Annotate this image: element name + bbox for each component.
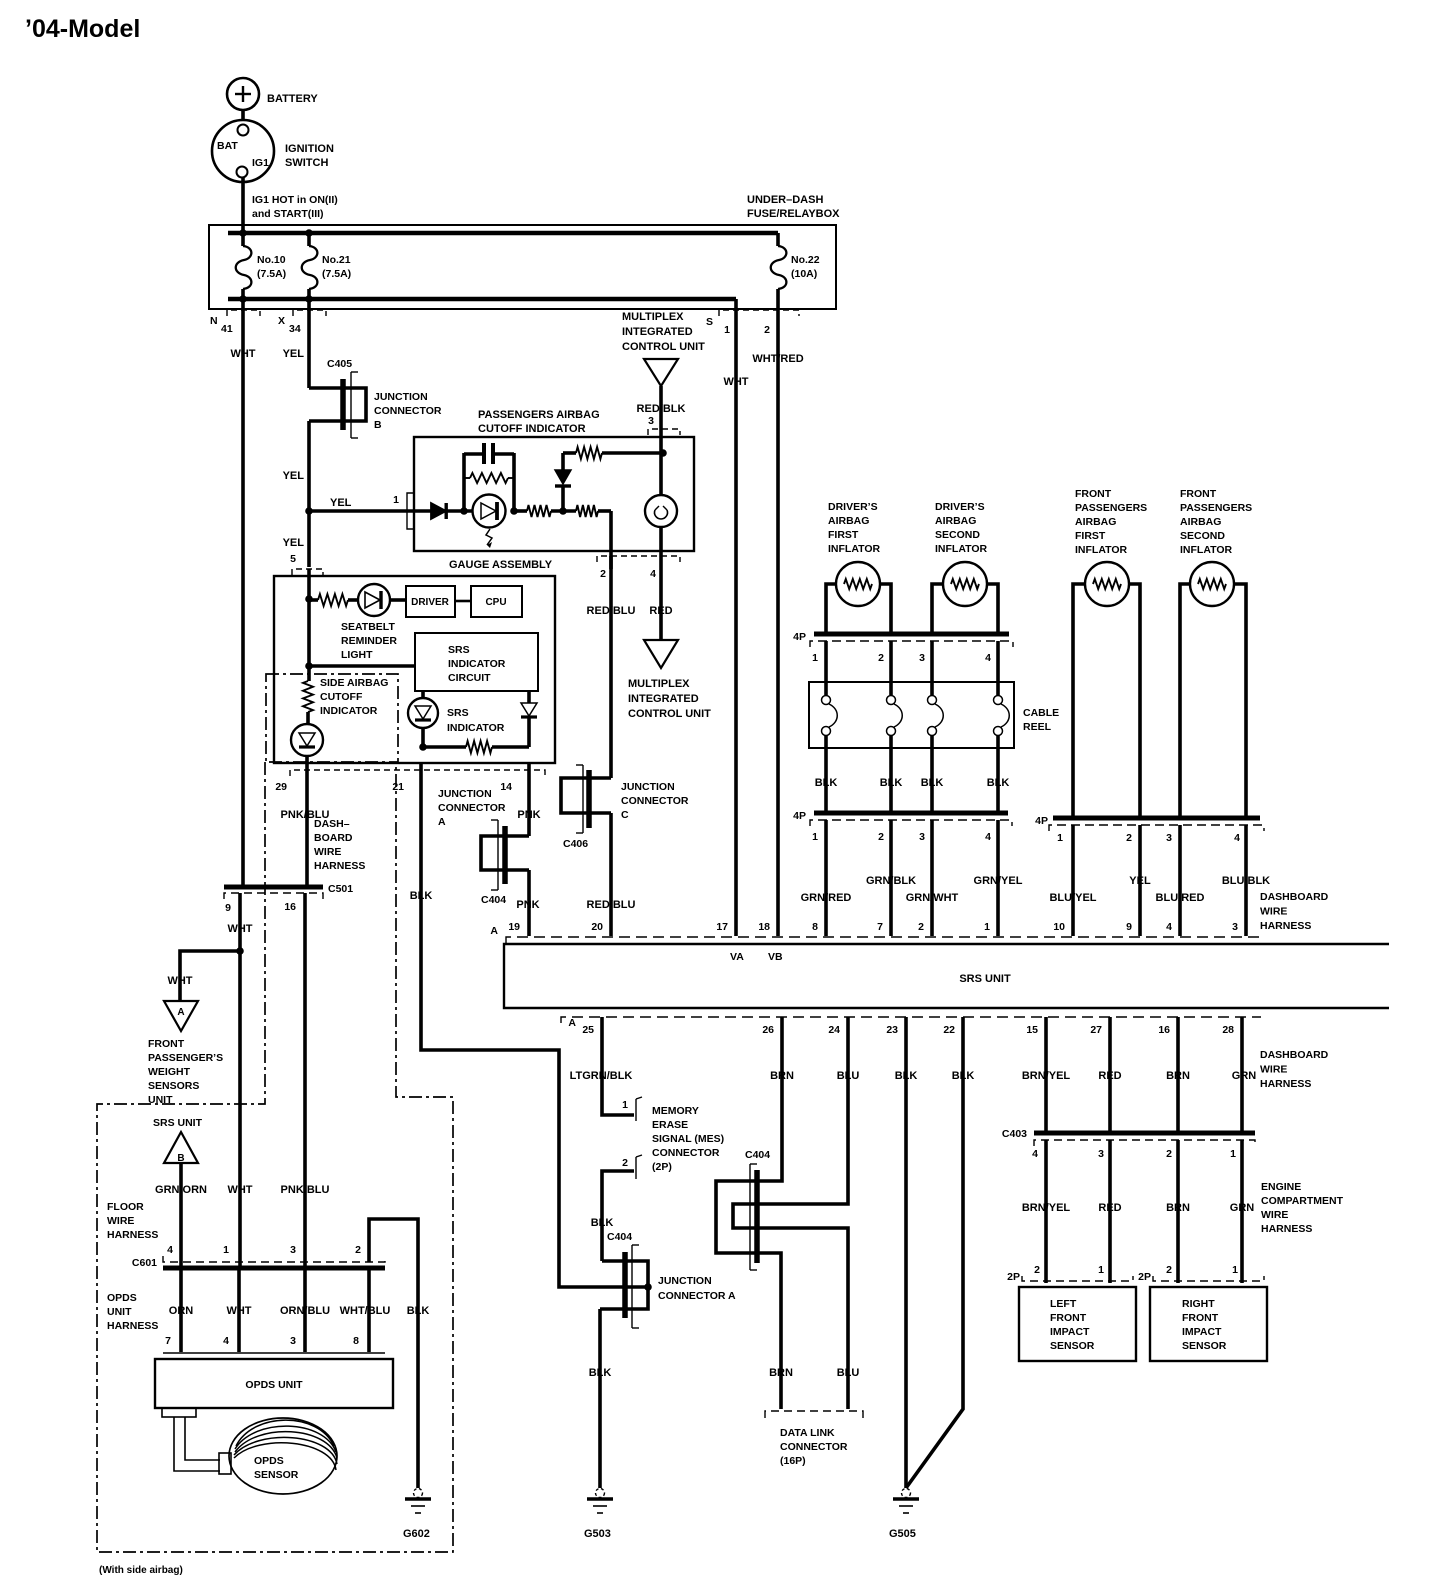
side airbag cutoff indicator: [291, 666, 388, 756]
svg-text:G505: G505: [889, 1528, 916, 1540]
node rail-diode branch: [559, 507, 567, 515]
svg-text:HARNESS: HARNESS: [314, 860, 365, 872]
svg-text:C404: C404: [481, 894, 506, 906]
svg-text:3: 3: [1232, 921, 1238, 933]
wire WHT branch to triangle A: [167, 951, 240, 1001]
connector C601: [132, 1256, 385, 1269]
svg-text:JUNCTION: JUNCTION: [621, 781, 675, 793]
svg-text:INTEGRATED: INTEGRATED: [622, 326, 693, 338]
svg-text:C404: C404: [607, 1231, 632, 1243]
wire battery to ignition switch: [241, 110, 245, 121]
wire BLK SRS pin23 to ground G505: [895, 1017, 918, 1488]
svg-text:SRS: SRS: [448, 644, 470, 656]
svg-text:SRS UNIT: SRS UNIT: [959, 973, 1011, 985]
svg-text:CONNECTOR: CONNECTOR: [780, 1441, 848, 1453]
svg-text:INFLATOR: INFLATOR: [935, 543, 988, 555]
svg-text:FRONT: FRONT: [1050, 1312, 1087, 1324]
svg-text:3: 3: [290, 1244, 296, 1256]
svg-text:CONTROL UNIT: CONTROL UNIT: [622, 341, 705, 353]
svg-text:BLK: BLK: [921, 777, 944, 789]
svg-text:7: 7: [877, 921, 883, 933]
fuse No.10 (7.5A): [236, 233, 286, 299]
svg-text:IMPACT: IMPACT: [1182, 1326, 1222, 1338]
svg-text:8: 8: [353, 1335, 359, 1347]
svg-text:FRONT: FRONT: [1075, 488, 1112, 500]
svg-text:SENSOR: SENSOR: [1050, 1340, 1095, 1352]
svg-text:10: 10: [1053, 921, 1065, 933]
svg-text:CONNECTOR: CONNECTOR: [652, 1147, 720, 1159]
svg-text:WIRE: WIRE: [1260, 1064, 1287, 1076]
svg-text:1: 1: [223, 1244, 229, 1256]
svg-text:HARNESS: HARNESS: [1260, 920, 1311, 932]
wires BRN/YEL RED BRN GRN from SRS to C403: [1022, 1017, 1256, 1133]
svg-text:WIRE: WIRE: [107, 1215, 134, 1227]
svg-text:BLK: BLK: [880, 777, 903, 789]
svg-text:GRN/RED: GRN/RED: [801, 892, 852, 904]
svg-text:1: 1: [1232, 1264, 1238, 1276]
cutoff box pins 2 and 4 bracket: [597, 556, 680, 580]
wire color labels BLU/YEL YEL BLU/RED BLU/BLK: [1049, 875, 1270, 904]
svg-text:PASSENGERS: PASSENGERS: [1180, 502, 1252, 514]
dash-dot boundary with side airbag region: [97, 762, 453, 1576]
svg-text:2: 2: [355, 1244, 361, 1256]
svg-text:FLOOR: FLOOR: [107, 1201, 144, 1213]
svg-text:A: A: [177, 1007, 184, 1018]
svg-text:DASHBOARD: DASHBOARD: [1260, 891, 1329, 903]
floor wire harness label: [107, 1201, 158, 1241]
svg-text:C406: C406: [563, 838, 588, 850]
svg-text:HARNESS: HARNESS: [107, 1229, 158, 1241]
svg-text:23: 23: [886, 1024, 898, 1036]
svg-text:1: 1: [724, 324, 730, 336]
svg-text:FRONT: FRONT: [148, 1038, 185, 1050]
wire RED/BLU from cutoff pin 2 to junction connector C: [587, 551, 636, 778]
svg-text:IG1 HOT in ON(II): IG1 HOT in ON(II): [252, 194, 338, 206]
resistor R5 gauge: [309, 594, 358, 606]
fuse box pin X 34: [278, 310, 326, 335]
svg-text:GAUGE ASSEMBLY: GAUGE ASSEMBLY: [449, 559, 553, 571]
svg-text:B: B: [374, 419, 382, 431]
gauge assembly pin 5: [290, 553, 323, 599]
node bus-fuse10: [239, 229, 247, 237]
svg-text:2P: 2P: [1138, 1271, 1151, 1283]
svg-text:WIRE: WIRE: [1260, 906, 1287, 918]
svg-text:WHT: WHT: [230, 348, 255, 360]
svg-text:UNIT: UNIT: [107, 1306, 132, 1318]
svg-text:G602: G602: [403, 1528, 430, 1540]
left front impact sensor connector 2P: [1007, 1264, 1133, 1283]
svg-text:YEL: YEL: [283, 470, 305, 482]
svg-text:UNDER–DASH: UNDER–DASH: [747, 194, 823, 206]
side airbag cutoff indicator dash-dot box: [266, 674, 398, 762]
svg-text:17: 17: [716, 921, 728, 933]
svg-text:AIRBAG: AIRBAG: [1075, 516, 1116, 528]
svg-text:PASSENGER’S: PASSENGER’S: [148, 1052, 223, 1064]
svg-text:INTEGRATED: INTEGRATED: [628, 693, 699, 705]
junction connector C (C406): [561, 765, 689, 850]
svg-text:WHT: WHT: [226, 1305, 251, 1317]
wires C403 to impact sensors: [1022, 1140, 1254, 1283]
svg-text:PNK: PNK: [517, 809, 540, 821]
svg-text:28: 28: [1222, 1024, 1234, 1036]
fuse box pin N 41: [210, 310, 260, 335]
junction connector A (C404) bottom: [600, 1231, 736, 1328]
svg-text:RED/BLK: RED/BLK: [637, 403, 686, 415]
svg-text:AIRBAG: AIRBAG: [935, 515, 976, 527]
svg-text:ORN/BLU: ORN/BLU: [280, 1305, 330, 1317]
svg-text:BOARD: BOARD: [314, 832, 353, 844]
svg-text:GRN/WHT: GRN/WHT: [906, 892, 959, 904]
wire GRN/ORN triangle B to C601: [155, 1163, 207, 1267]
resistor R4 and corner to pin 2: [576, 505, 611, 551]
svg-text:BRN: BRN: [770, 1070, 794, 1082]
cable reel contact 2: [887, 696, 903, 736]
svg-text:5: 5: [290, 553, 296, 565]
svg-text:2: 2: [918, 921, 924, 933]
svg-text:B: B: [177, 1153, 184, 1164]
svg-text:BRN: BRN: [769, 1367, 793, 1379]
svg-text:YEL: YEL: [330, 497, 352, 509]
bus wire bottom inside fuse box: [228, 297, 736, 302]
diode D1 on rail: [414, 503, 473, 519]
svg-text:25: 25: [582, 1024, 594, 1036]
svg-text:WIRE: WIRE: [1261, 1209, 1288, 1221]
svg-text:14: 14: [500, 781, 512, 793]
svg-text:OPDS: OPDS: [254, 1455, 284, 1467]
svg-text:1: 1: [1230, 1148, 1236, 1160]
svg-text:2: 2: [1034, 1264, 1040, 1276]
svg-text:SRS: SRS: [447, 707, 469, 719]
resistor R3 top branch: [563, 447, 663, 459]
junction connector B (C405): [309, 358, 442, 438]
svg-text:BRN: BRN: [1166, 1202, 1190, 1214]
ground G602: [414, 1489, 423, 1498]
svg-text:ORN: ORN: [169, 1305, 194, 1317]
svg-text:S: S: [706, 316, 713, 328]
svg-text:GRN/ORN: GRN/ORN: [155, 1184, 207, 1196]
node bus2-yel: [305, 295, 313, 303]
svg-text:1: 1: [812, 831, 818, 843]
triangle A front passenger weight sensor: [164, 1001, 198, 1031]
wire BLU SRS pin24 through junction connector A to data link connector: [733, 1017, 859, 1409]
svg-text:C: C: [621, 809, 629, 821]
svg-text:4: 4: [1234, 832, 1240, 844]
svg-text:PASSENGERS: PASSENGERS: [1075, 502, 1147, 514]
svg-text:22: 22: [943, 1024, 955, 1036]
svg-text:LIGHT: LIGHT: [341, 649, 373, 661]
svg-text:SECOND: SECOND: [1180, 530, 1225, 542]
svg-text:4: 4: [650, 568, 656, 580]
wire driver-cpu: [455, 600, 471, 603]
wires 4P to SRS unit (dashboard side): [826, 820, 1246, 936]
diode D2 branch up: [555, 453, 571, 511]
OPDS unit harness label: [107, 1292, 158, 1332]
svg-text:16: 16: [284, 901, 296, 913]
svg-text:SWITCH: SWITCH: [285, 157, 328, 169]
svg-text:2: 2: [1166, 1264, 1172, 1276]
fuse No.22 (10A): [771, 233, 820, 309]
svg-text:1: 1: [984, 921, 990, 933]
cable reel contact 4: [994, 696, 1010, 736]
svg-text:DATA LINK: DATA LINK: [780, 1427, 835, 1439]
svg-text:FIRST: FIRST: [828, 529, 859, 541]
svg-text:(2P): (2P): [652, 1161, 672, 1173]
svg-text:2P: 2P: [1007, 1271, 1020, 1283]
svg-text:YEL: YEL: [283, 348, 305, 360]
node bus2-wht: [239, 295, 247, 303]
svg-text:1: 1: [393, 494, 399, 506]
memory erase signal connector pin 2: [622, 1155, 642, 1179]
left front impact sensor: [1019, 1287, 1136, 1361]
svg-text:SIGNAL (MES): SIGNAL (MES): [652, 1133, 724, 1145]
svg-text:INDICATOR: INDICATOR: [320, 705, 378, 717]
svg-text:CONNECTOR: CONNECTOR: [374, 405, 442, 417]
svg-text:3: 3: [290, 1335, 296, 1347]
svg-text:1: 1: [622, 1099, 628, 1111]
svg-text:24: 24: [828, 1024, 840, 1036]
wire PNK/BLU C501 to C601: [303, 893, 307, 1267]
svg-text:1: 1: [1057, 832, 1063, 844]
svg-text:SENSORS: SENSORS: [148, 1080, 199, 1092]
DRIVER box: [406, 586, 455, 617]
svg-text:GRN: GRN: [1232, 1070, 1257, 1082]
OPDS unit box: [155, 1353, 393, 1408]
svg-text:15: 15: [1026, 1024, 1038, 1036]
svg-text:CONNECTOR: CONNECTOR: [621, 795, 689, 807]
svg-text:CONNECTOR A: CONNECTOR A: [658, 1290, 736, 1302]
SRS bottom connector A bracket: [561, 1017, 1261, 1029]
node gauge seatbelt branch: [305, 595, 313, 603]
svg-text:A: A: [568, 1017, 576, 1029]
cable reel contact 1: [822, 696, 838, 736]
svg-text:INFLATOR: INFLATOR: [1075, 544, 1128, 556]
svg-text:DASHBOARD: DASHBOARD: [1260, 1049, 1329, 1061]
svg-text:REEL: REEL: [1023, 721, 1052, 733]
svg-text:WEIGHT: WEIGHT: [148, 1066, 191, 1078]
svg-text:No.22: No.22: [791, 254, 820, 266]
multiplex integrated control unit (bottom): [628, 640, 711, 720]
svg-text:3: 3: [1166, 832, 1172, 844]
wire LTGRN/BLK SRS pin25 to MES connector: [570, 1017, 634, 1115]
svg-text:IG1: IG1: [252, 157, 269, 169]
seatbelt reminder light LED: [341, 584, 406, 661]
svg-text:1: 1: [812, 652, 818, 664]
junction connector A (C404) upper: [438, 788, 529, 906]
svg-text:CONTROL UNIT: CONTROL UNIT: [628, 708, 711, 720]
svg-text:FRONT: FRONT: [1182, 1312, 1219, 1324]
right front impact sensor: [1150, 1287, 1267, 1361]
rail wire and resistor R2: [514, 505, 576, 517]
svg-text:GRN: GRN: [1230, 1202, 1255, 1214]
svg-text:AIRBAG: AIRBAG: [828, 515, 869, 527]
svg-text:2: 2: [1126, 832, 1132, 844]
svg-text:MULTIPLEX: MULTIPLEX: [622, 311, 684, 323]
svg-text:GRN/YEL: GRN/YEL: [974, 875, 1023, 887]
svg-text:16: 16: [1158, 1024, 1170, 1036]
svg-text:ERASE: ERASE: [652, 1119, 688, 1131]
fuse box pins S 1 and 2: [706, 310, 799, 336]
svg-text:3: 3: [919, 652, 925, 664]
svg-text:COMPARTMENT: COMPARTMENT: [1261, 1195, 1344, 1207]
battery: [227, 78, 318, 110]
wire WHT/RED fuse No.22 to SRS pin 18: [752, 309, 803, 936]
svg-text:REMINDER: REMINDER: [341, 635, 397, 647]
svg-text:RED: RED: [1098, 1070, 1121, 1082]
svg-text:WHT/BLU: WHT/BLU: [340, 1305, 391, 1317]
driver's airbag first inflator: [826, 501, 891, 634]
svg-text:VA: VA: [730, 951, 744, 963]
svg-text:SEATBELT: SEATBELT: [341, 621, 395, 633]
svg-text:CPU: CPU: [485, 597, 506, 608]
svg-text:JUNCTION: JUNCTION: [374, 391, 428, 403]
svg-text:BLK: BLK: [952, 1070, 975, 1082]
svg-text:YEL: YEL: [283, 537, 305, 549]
svg-text:INDICATOR: INDICATOR: [447, 722, 505, 734]
svg-text:WHT: WHT: [723, 376, 748, 388]
svg-text:4P: 4P: [793, 810, 806, 822]
ignition switch: [212, 120, 334, 182]
svg-text:HARNESS: HARNESS: [107, 1320, 158, 1332]
svg-text:AIRBAG: AIRBAG: [1180, 516, 1221, 528]
front passengers airbag second inflator: [1180, 488, 1252, 818]
svg-text:2: 2: [600, 568, 606, 580]
svg-text:OPDS: OPDS: [107, 1292, 137, 1304]
svg-text:DRIVER: DRIVER: [411, 597, 450, 608]
driver's airbag second inflator: [932, 501, 998, 634]
gauge assembly bottom pin bracket: [290, 770, 545, 776]
svg-text:GRN/BLK: GRN/BLK: [866, 875, 916, 887]
svg-text:4: 4: [167, 1244, 173, 1256]
OPDS sensor coil: [229, 1418, 337, 1494]
svg-text:34: 34: [289, 323, 301, 335]
svg-text:BLK: BLK: [591, 1217, 614, 1229]
svg-text:CUTOFF: CUTOFF: [320, 691, 363, 703]
svg-text:4: 4: [985, 831, 991, 843]
svg-text:18: 18: [758, 921, 770, 933]
svg-text:C403: C403: [1002, 1128, 1027, 1140]
svg-text:2: 2: [878, 831, 884, 843]
svg-text:YEL: YEL: [1129, 875, 1151, 887]
svg-text:4: 4: [985, 652, 991, 664]
wire YEL junction B to gauge assembly pin 5: [283, 421, 309, 567]
svg-text:8: 8: [812, 921, 818, 933]
svg-text:4: 4: [1166, 921, 1172, 933]
svg-text:FRONT: FRONT: [1180, 488, 1217, 500]
memory erase signal connector pin 1: [622, 1097, 642, 1121]
svg-text:2: 2: [878, 652, 884, 664]
svg-text:BLU/RED: BLU/RED: [1156, 892, 1205, 904]
front passengers airbag first inflator: [1073, 488, 1147, 818]
node WHT branch to weight sensor: [236, 947, 244, 955]
svg-text:RED: RED: [649, 605, 672, 617]
diode D3 gauge right: [521, 691, 537, 747]
wire RED from cutoff pin 4 to multiplex (bottom): [649, 551, 672, 640]
resistor R parallel: [464, 473, 514, 483]
node junction A: [644, 1283, 652, 1291]
wire RED/BLK from multiplex to cutoff pin 3: [637, 386, 686, 437]
svg-text:4P: 4P: [1035, 815, 1048, 827]
svg-text:PNK: PNK: [516, 899, 539, 911]
node bus-fuse21: [305, 229, 313, 237]
wire PNK junction A to SRS pin 19: [516, 870, 539, 936]
svg-text:BLK: BLK: [987, 777, 1010, 789]
svg-text:3: 3: [648, 415, 654, 427]
node srs-ind: [419, 743, 427, 751]
svg-text:4P: 4P: [793, 631, 806, 643]
svg-text:BLK: BLK: [589, 1367, 612, 1379]
cable reel box: [809, 682, 1059, 748]
svg-text:WHT: WHT: [227, 923, 252, 935]
svg-text:CABLE: CABLE: [1023, 707, 1059, 719]
SRS indicator circuit box: [415, 633, 538, 691]
wire BLK MES pin2 to junction connector A: [591, 1171, 634, 1261]
connector C403: [1002, 1128, 1255, 1160]
SRS top connector A bracket: [490, 925, 1261, 943]
bus wire top inside fuse box: [228, 231, 778, 236]
svg-text:INFLATOR: INFLATOR: [828, 543, 881, 555]
svg-text:X: X: [278, 315, 285, 327]
svg-text:(7.5A): (7.5A): [322, 268, 351, 280]
wires OPDS harness C601 to OPDS unit: [169, 1270, 391, 1352]
wire WHT fuse box S1 to SRS pin 17: [723, 299, 748, 936]
svg-text:BLU: BLU: [837, 1367, 860, 1379]
4P connector driver bottom: [793, 810, 1012, 843]
svg-text:2: 2: [764, 324, 770, 336]
svg-text:WIRE: WIRE: [314, 846, 341, 858]
svg-text:RED/BLU: RED/BLU: [587, 605, 636, 617]
svg-text:19: 19: [508, 921, 520, 933]
svg-text:BLU/YEL: BLU/YEL: [1049, 892, 1096, 904]
4P connector driver top: [793, 631, 1013, 664]
RC parallel branch left vertical: [462, 453, 466, 511]
node top branch to pin3 wire: [659, 449, 667, 457]
svg-text:RED: RED: [1098, 1202, 1121, 1214]
wire YEL from fuse No.21 to junction connector B: [283, 299, 309, 388]
CPU box: [471, 586, 522, 617]
data link connector (16P): [765, 1411, 863, 1467]
svg-text:3: 3: [919, 831, 925, 843]
passenger's airbag cutoff indicator box: [414, 409, 694, 551]
wire BLK gauge pin21 elbow to junction connector A bottom: [410, 763, 648, 1287]
right front impact sensor connector 2P: [1138, 1264, 1264, 1283]
wires BLK cable reel to lower 4P: [815, 736, 1010, 813]
SRS unit box: [504, 944, 1389, 1008]
OPDS sensor cable duct: [162, 1408, 231, 1474]
node rail-RC left: [460, 507, 468, 515]
svg-text:N: N: [210, 315, 218, 327]
wire PNK/BLU gauge pin29 to C501: [281, 756, 330, 887]
svg-text:20: 20: [591, 921, 603, 933]
svg-text:BRN: BRN: [1166, 1070, 1190, 1082]
svg-text:LEFT: LEFT: [1050, 1298, 1077, 1310]
svg-text:IGNITION: IGNITION: [285, 143, 334, 155]
svg-text:(7.5A): (7.5A): [257, 268, 286, 280]
node gauge-srs branch: [305, 662, 313, 670]
wires 4P to cable reel: [826, 641, 998, 695]
wire gauge vertical to node 2: [307, 599, 311, 666]
ground G503: [596, 1489, 605, 1498]
RC parallel branch right vertical: [512, 453, 516, 511]
svg-text:IMPACT: IMPACT: [1050, 1326, 1090, 1338]
svg-text:C601: C601: [132, 1257, 157, 1269]
svg-text:INDICATOR: INDICATOR: [448, 658, 506, 670]
svg-text:BATTERY: BATTERY: [267, 93, 318, 105]
gauge assembly box: [274, 559, 555, 763]
svg-text:3: 3: [1098, 1148, 1104, 1160]
svg-text:CUTOFF INDICATOR: CUTOFF INDICATOR: [478, 423, 586, 435]
svg-text:9: 9: [225, 902, 231, 914]
svg-text:CONNECTOR: CONNECTOR: [438, 802, 506, 814]
